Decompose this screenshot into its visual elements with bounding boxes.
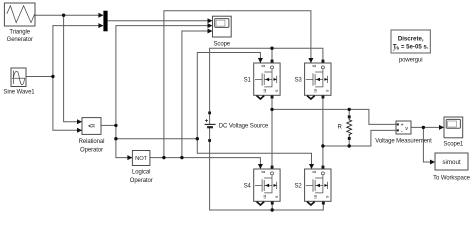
arrow S4 gate [258,164,263,169]
svg-text:Discrete,: Discrete, [398,36,424,43]
wire relational out [101,124,116,126]
Scope1 block [444,117,463,138]
wire left leg node [271,95,273,169]
svg-text:Scope: Scope [214,42,231,48]
svg-text:Sine Wave1: Sine Wave1 [3,89,35,95]
pin S3 drain [322,60,325,63]
wire VM out to Scope1 [411,126,444,128]
wire left node to VM plus [272,109,396,124]
wire R top stub [348,109,350,117]
mosfet S1 [254,63,280,95]
pin S2 source [322,202,325,205]
node NOT split2 [180,156,183,159]
svg-text:S1: S1 [244,78,252,84]
node pwm branch [114,137,117,140]
wire S4 source to bus [271,202,273,210]
wire DC minus to bottom bus [210,141,324,211]
node sine split [51,75,54,78]
Sine Wave1 block [11,68,26,87]
svg-text:S3: S3 [294,78,302,84]
wire S1 drain drop [271,48,273,63]
pin S2 drain [322,166,325,169]
arrow NOT in [127,155,132,160]
arrow relational in1 [77,119,82,124]
logical operator NOT block [132,151,150,166]
Triangle Generator block [4,3,35,26]
DC Voltage Source [205,112,216,142]
wire sine up to mux [26,26,103,77]
ARROWHEADS [77,13,444,169]
mosfet S2 [305,169,331,201]
arrow To Workspace in [430,160,435,165]
wire sine down to relational in2 [53,77,82,131]
arrow scope in3 [208,29,213,34]
To Workspace block [435,153,468,170]
svg-text:Scope1: Scope1 [443,141,464,147]
svg-text:powergui: powergui [399,58,423,64]
port S2 m unconnected [307,202,315,205]
wire mux to scope in1 [108,20,211,22]
pin S1 drain [271,60,274,63]
wire right leg node [322,95,324,169]
svg-text:Operator: Operator [80,147,103,153]
wire pwm branch right [116,138,197,140]
svg-text:<=: <= [88,124,95,130]
Scope block [213,16,232,37]
wire pwm down to NOT in [116,125,132,157]
mosfet S3 [305,63,331,95]
node R bottom [348,144,351,147]
svg-text:Triangle: Triangle [9,30,30,36]
arrow scope in2 [208,23,213,28]
wire pwm to S2 gate [197,139,311,169]
svg-text:Voltage Measurement: Voltage Measurement [375,138,432,144]
pin S4 source [271,202,274,205]
wire VM out down to workspace [423,127,434,162]
wire NOT up to top rail to S3 gate [164,11,311,158]
wire triangle down to relational in1 [64,15,82,122]
wire R bottom stub [348,139,350,147]
port S3 m unconnected [307,96,315,99]
wire NOT to scope in3 [182,31,211,158]
node S4 bus [271,208,274,211]
svg-text:S2: S2 [294,184,302,190]
node dc plus S1 [270,47,273,50]
powergui block [391,30,430,53]
wire right node to VM minus [323,130,396,146]
resistor R branch [347,115,352,139]
mosfet S4 [254,169,280,201]
svg-text:To Workspace: To Workspace [433,175,470,181]
svg-text:DC Voltage Source: DC Voltage Source [219,124,269,130]
arrow S2 gate [309,164,314,169]
wire pwm up to scope in2 [116,26,211,126]
svg-text:simout: simout [442,159,461,166]
Relational Operator block [82,118,101,135]
port S1 m unconnected [257,96,265,99]
arrow S1 gate [258,58,263,63]
pin S4 drain [271,166,274,169]
svg-text:Operator: Operator [130,178,153,184]
wire triangle to mux [35,14,103,16]
svg-text:+: + [401,123,404,129]
mux [103,11,107,32]
svg-text:NOT: NOT [135,156,148,162]
svg-text:Relational: Relational [79,139,105,145]
node NOT split1 [162,156,165,159]
svg-text:v: v [405,126,408,132]
pin S3 source [322,96,325,99]
arrow scope in1 [208,18,213,23]
arrow mux in1 [98,13,103,18]
node VM out split [422,126,425,129]
node left leg out [270,108,273,111]
svg-text:Logical: Logical [132,170,150,176]
arrow Scope1 in [439,125,444,130]
arrow mux in2 [98,23,103,28]
arrow S3 gate [308,58,313,63]
wire DC plus rail [210,48,323,113]
arrow relational in2 [77,128,82,133]
pin S1 source [271,96,274,99]
Voltage Measurement block [396,121,411,135]
node R top [348,108,351,111]
svg-text:Generator: Generator [7,37,33,43]
port S4 m unconnected [257,202,265,205]
node triangle split [62,14,65,17]
svg-text:S4: S4 [244,184,252,190]
node lineA [196,137,199,140]
wire pwm to S1 gate [197,53,260,139]
node pwm split [114,124,117,127]
wire NOT out [150,158,261,169]
node right leg out [321,144,324,147]
svg-text:Ts = 5e-05 s.: Ts = 5e-05 s. [393,43,429,50]
